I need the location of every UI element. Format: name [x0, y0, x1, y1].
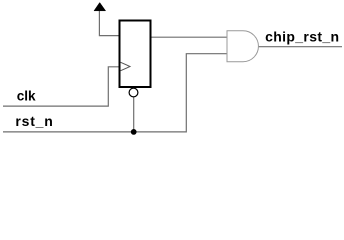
svg-text:clk: clk [17, 89, 36, 104]
svg-text:chip_rst_n: chip_rst_n [265, 29, 339, 45]
svg-text:rst_n: rst_n [15, 113, 53, 129]
